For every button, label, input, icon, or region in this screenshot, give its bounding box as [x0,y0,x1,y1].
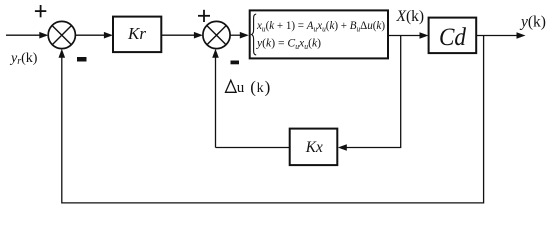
svg-text:k: k [257,81,264,96]
svg-text:yr(k): yr(k) [9,51,38,67]
svg-text:(: ( [250,78,256,97]
svg-text:Kr: Kr [127,24,146,43]
svg-text:y(k): y(k) [519,14,546,31]
svg-text:u: u [237,80,245,96]
svg-text:y(k) = Cuxu(k): y(k) = Cuxu(k) [256,35,321,51]
svg-text:): ) [265,78,271,97]
svg-text:Cd: Cd [439,24,466,51]
svg-text:xu(k + 1) = Auxu(k) + BuΔu(k): xu(k + 1) = Auxu(k) + BuΔu(k) [256,18,385,34]
svg-text:X(k): X(k) [396,8,425,25]
svg-text:Kx: Kx [305,139,323,156]
